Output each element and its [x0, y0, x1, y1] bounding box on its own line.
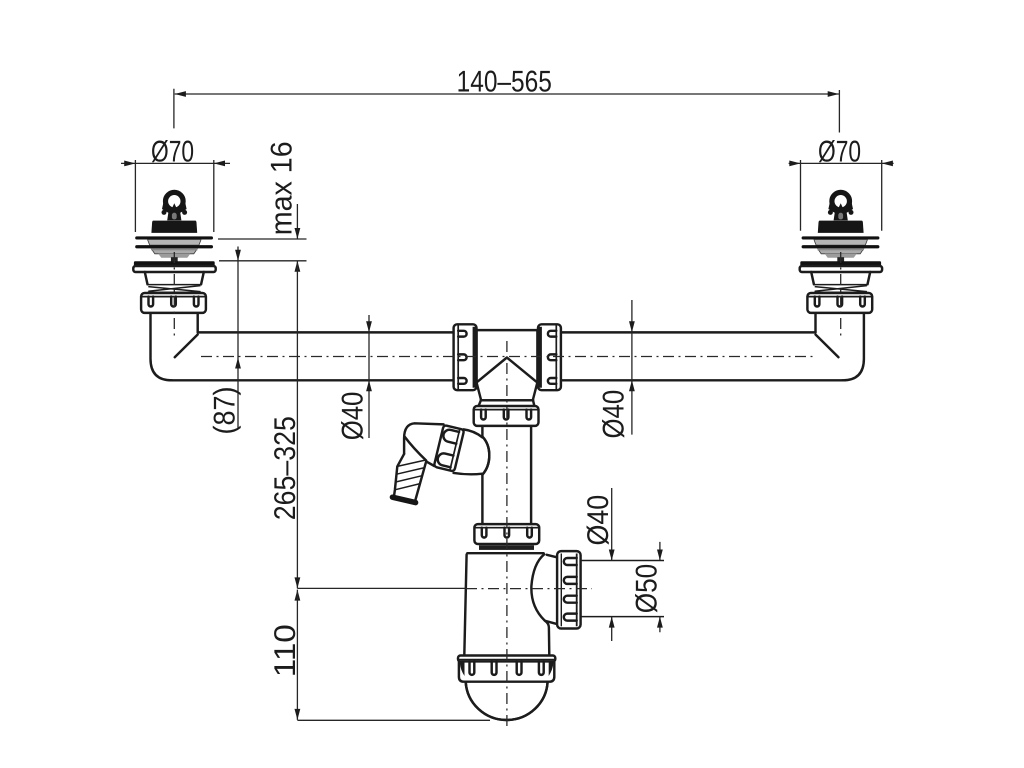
svg-text:Ø40: Ø40	[337, 392, 370, 441]
svg-text:Ø50: Ø50	[631, 564, 664, 614]
svg-text:265–325: 265–325	[269, 416, 302, 520]
svg-text:max 16: max 16	[266, 141, 299, 235]
svg-text:140–565: 140–565	[457, 66, 552, 99]
svg-text:Ø40: Ø40	[582, 495, 615, 546]
svg-text:Ø70: Ø70	[151, 135, 194, 168]
svg-text:Ø70: Ø70	[818, 135, 861, 168]
svg-text:110: 110	[269, 624, 302, 677]
svg-text:(87): (87)	[209, 387, 242, 435]
svg-text:Ø40: Ø40	[598, 390, 631, 439]
